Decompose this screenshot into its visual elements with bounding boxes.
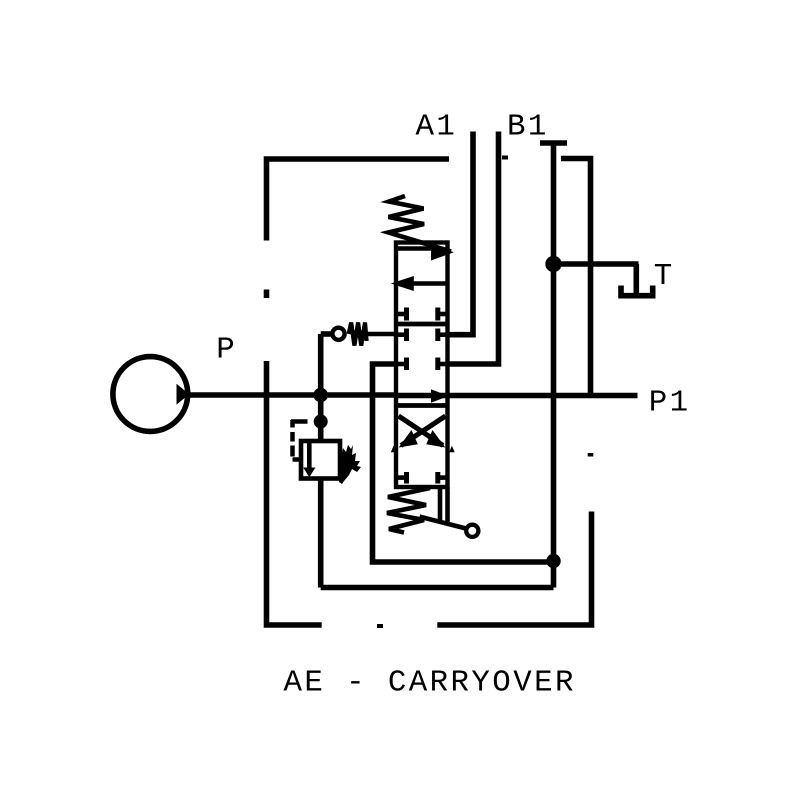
svg-text:AE - CARRYOVER: AE - CARRYOVER	[284, 665, 576, 700]
svg-text:P1: P1	[649, 385, 691, 420]
svg-text:P: P	[216, 333, 237, 368]
svg-text:T: T	[654, 259, 675, 294]
svg-text:B1: B1	[507, 109, 549, 144]
svg-text:A1: A1	[416, 109, 458, 144]
